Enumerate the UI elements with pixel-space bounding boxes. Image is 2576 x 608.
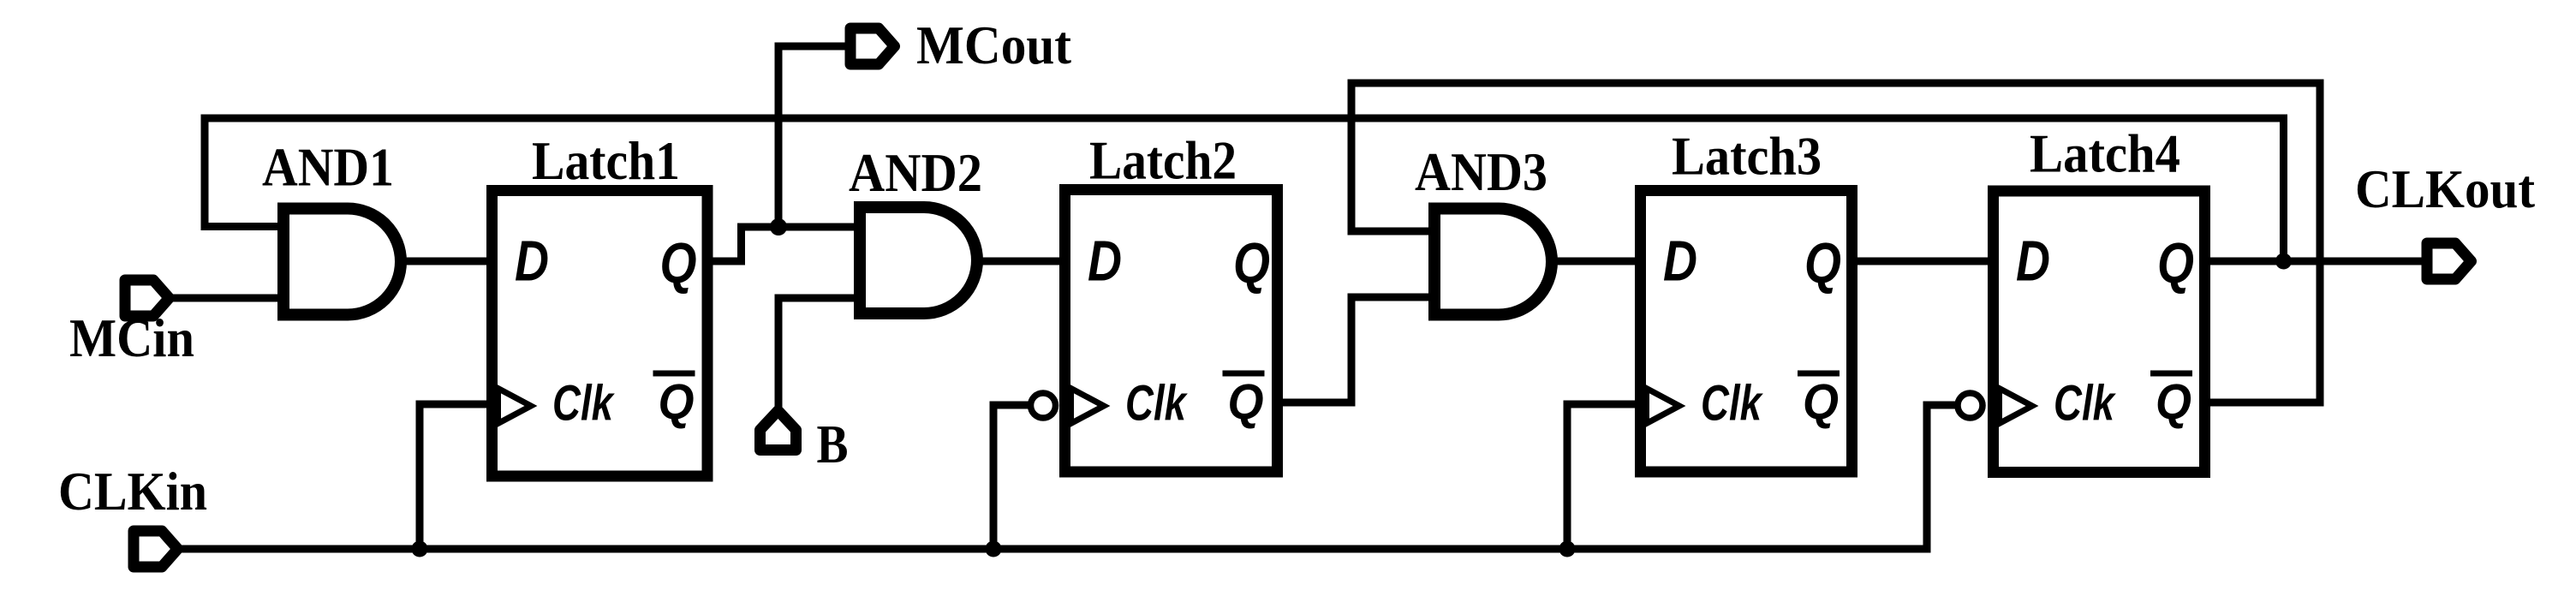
svg-text:D: D [2016, 229, 2050, 294]
node junction CLKin/Latch1 [412, 541, 428, 557]
wire Latch1 Q to AND2 top input [710, 227, 862, 261]
wire B to AND2 bottom input [778, 298, 862, 407]
wire MCout stub [778, 46, 852, 227]
wire Latch3 Q to Latch4 D [1855, 258, 1990, 265]
svg-text:Q: Q [1228, 374, 1264, 430]
svg-text:D: D [1663, 229, 1697, 294]
port MCout connector [850, 28, 895, 64]
svg-text:MCin: MCin [69, 307, 194, 368]
wire AND1 output to Latch1 D [399, 258, 495, 265]
and-gate AND3 [1434, 209, 1552, 315]
svg-text:MCout: MCout [916, 15, 1072, 75]
latch Latch2 box [1065, 190, 1278, 473]
pin Latch2 Clk bubble [1031, 393, 1056, 418]
svg-text:B: B [817, 414, 849, 474]
svg-text:Q: Q [660, 231, 697, 295]
wire feedback net Q4bar from Latch4 to AND3 top input [1351, 83, 2320, 402]
wire CLKin branch to Latch2 Clk [993, 405, 1031, 549]
svg-text:Q: Q [2156, 374, 2191, 430]
pin Latch1 Clk triangle [498, 389, 532, 424]
wire Latch2 Qbar to AND3 bottom input [1279, 297, 1434, 402]
pin Latch4 Clk bubble [1958, 393, 1983, 418]
wire CLKin bus to Latch4 Clk [170, 405, 1959, 549]
node junction MCout tap on Q1 [770, 218, 787, 235]
svg-text:Latch3: Latch3 [1672, 126, 1822, 187]
wire feedback net Q4 to AND1 top input [205, 118, 2284, 261]
node junction CLKin/Latch2 [986, 541, 1002, 557]
wire Latch4 Q to CLKout [2208, 258, 2432, 265]
latch Latch1 box [492, 191, 708, 477]
port MCin connector [125, 280, 170, 316]
svg-text:D: D [1088, 229, 1122, 294]
svg-text:Clk: Clk [1701, 376, 1763, 432]
svg-text:AND3: AND3 [1415, 141, 1547, 202]
port CLKin connector [134, 531, 178, 567]
svg-text:Latch2: Latch2 [1089, 130, 1237, 191]
svg-text:Clk: Clk [1125, 376, 1188, 432]
node junction CLKin/Latch3 [1559, 541, 1576, 557]
latch Latch4 box [1994, 191, 2205, 473]
latch Latch3 box [1641, 191, 1852, 473]
svg-text:Latch4: Latch4 [2030, 123, 2180, 184]
svg-text:Clk: Clk [552, 376, 615, 432]
pin Latch2 Qbar overline [1223, 371, 1265, 377]
svg-text:Q: Q [1804, 231, 1841, 295]
svg-text:D: D [515, 229, 549, 294]
svg-text:CLKout: CLKout [2355, 158, 2536, 219]
and-gate AND1 [283, 209, 401, 315]
pin Latch2 Clk triangle [1071, 389, 1105, 424]
pin Latch1 Qbar overline [653, 371, 695, 377]
pin Latch3 Clk triangle [1647, 389, 1680, 424]
wire CLKin branch to Latch1 Clk [420, 404, 495, 549]
pin Latch3 Qbar overline [1798, 371, 1840, 377]
svg-text:AND2: AND2 [849, 142, 982, 203]
svg-text:Q: Q [1233, 231, 1270, 295]
svg-text:Latch1: Latch1 [532, 130, 680, 191]
svg-text:Clk: Clk [2054, 376, 2116, 432]
pin Latch4 Qbar overline [2150, 371, 2192, 377]
svg-text:Q: Q [2157, 231, 2194, 295]
port CLKout connector [2427, 243, 2472, 279]
wire MCin to AND1 bottom input [170, 295, 283, 302]
node junction Q4 feedback tap [2275, 253, 2292, 270]
wire AND2 output to Latch2 D [977, 258, 1067, 265]
port B connector [760, 411, 796, 450]
wire CLKin branch to Latch3 Clk [1567, 404, 1637, 549]
svg-text:Q: Q [1803, 374, 1839, 430]
wire AND3 output to Latch3 D [1552, 258, 1637, 265]
svg-text:AND1: AND1 [262, 137, 394, 198]
svg-text:CLKin: CLKin [58, 461, 207, 522]
svg-text:Q: Q [659, 374, 695, 430]
pin Latch4 Clk triangle [2000, 389, 2033, 424]
and-gate AND2 [860, 207, 977, 313]
